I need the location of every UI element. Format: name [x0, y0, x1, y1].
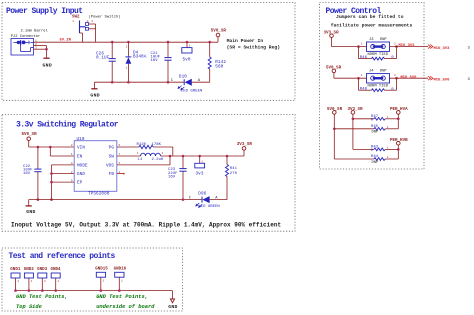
svg-text:MODE: MODE	[77, 163, 88, 168]
svg-text:Jumpers can be fitted to: Jumpers can be fitted to	[336, 14, 404, 20]
testpoint GND2	[24, 268, 35, 291]
svg-text:DNP: DNP	[372, 161, 380, 165]
svg-text:1: 1	[361, 42, 363, 45]
svg-text:3V3_SR: 3V3_SR	[348, 108, 364, 112]
junction row2 right	[395, 77, 398, 80]
capacitor C23	[168, 156, 187, 200]
diode D4	[125, 42, 146, 82]
node PER_HVB	[390, 139, 408, 159]
svg-text:1: 1	[71, 153, 73, 156]
svg-text:Test and reference points: Test and reference points	[9, 252, 116, 261]
svg-text:1: 1	[387, 116, 389, 119]
svg-text:VOS: VOS	[106, 163, 114, 168]
svg-text:EN: EN	[77, 154, 83, 159]
switch SW2 body	[80, 21, 89, 34]
svg-text:2.2uH: 2.2uH	[152, 158, 165, 162]
wire: test point ground rail	[16, 291, 173, 299]
wire: 5V rail to VIN	[29, 146, 74, 148]
svg-text:1: 1	[17, 280, 19, 283]
junction dots output rail	[169, 155, 229, 158]
svg-text:facilitate power measurements: facilitate power measurements	[331, 22, 413, 28]
resistor R45 DNP	[334, 125, 398, 135]
svg-text:SW: SW	[109, 154, 115, 159]
wire: jack pin2/3 to ground	[34, 46, 47, 58]
svg-text:EP: EP	[77, 181, 83, 186]
svg-text:2: 2	[394, 42, 396, 45]
frame: power supply input	[2, 3, 295, 101]
junction dots MGE	[37, 172, 53, 201]
svg-text:GND3: GND3	[37, 268, 48, 272]
svg-text:1: 1	[103, 280, 105, 283]
svg-text:VIN: VIN	[77, 145, 85, 150]
svg-text:5V0_SR: 5V0_SR	[22, 133, 38, 137]
pin FB stub	[117, 173, 125, 175]
svg-text:1: 1	[387, 156, 389, 159]
node 5V0_SR (matrix)	[327, 108, 343, 159]
svg-text:GND15: GND15	[95, 267, 108, 271]
wire: bottom ground rail regulator	[29, 199, 202, 201]
resistor R41	[226, 156, 238, 200]
svg-text:3: 3	[71, 162, 73, 165]
wire: row1 left	[332, 46, 367, 48]
svg-text:FB: FB	[109, 172, 115, 177]
switch SW2 pin numbers	[72, 20, 93, 23]
svg-text:DNP: DNP	[380, 38, 388, 42]
svg-text:GND: GND	[168, 304, 178, 310]
svg-text:R41: R41	[230, 167, 238, 171]
svg-text:GND: GND	[26, 209, 36, 215]
svg-text:3v3: 3v3	[196, 171, 204, 176]
wire: row2 left	[334, 77, 367, 79]
capacitor C21	[151, 42, 172, 82]
svg-text:DNP: DNP	[372, 131, 380, 135]
resistor R46 bypass row1	[359, 47, 397, 61]
svg-text:U10: U10	[77, 137, 85, 142]
svg-text:PG: PG	[109, 145, 115, 150]
svg-text:1: 1	[126, 67, 128, 70]
svg-text:270: 270	[230, 172, 238, 176]
resistor R48 bypass row2	[359, 78, 397, 92]
svg-text:R45: R45	[371, 125, 379, 129]
resistor R44 DNP	[334, 155, 398, 165]
resistor R142	[208, 42, 226, 82]
connector PJ2 pin numbers 1 2 3	[35, 39, 37, 49]
svg-text:R44: R44	[371, 155, 379, 159]
svg-text:3.3v Switching Regulator: 3.3v Switching Regulator	[16, 120, 119, 129]
svg-text:underside of board: underside of board	[96, 304, 155, 310]
svg-text:1: 1	[121, 280, 123, 283]
svg-text:R46: R46	[360, 56, 368, 60]
svg-text:2: 2	[394, 74, 396, 77]
wire: VOS to output	[117, 156, 170, 165]
svg-text:NORM TIED: NORM TIED	[368, 53, 389, 57]
svg-text:GND: GND	[90, 93, 100, 99]
svg-text:5v0: 5v0	[183, 58, 191, 63]
connector PJ2 body	[11, 39, 34, 56]
node 5V0_SR (top box)	[211, 29, 227, 42]
svg-text:1: 1	[72, 20, 74, 23]
svg-text:(SR = Swithing Reg): (SR = Swithing Reg)	[227, 45, 281, 51]
jumper J3	[361, 38, 396, 57]
node 3V3_SR (control row 1)	[324, 32, 340, 47]
svg-text:Top Side: Top Side	[16, 304, 42, 310]
svg-text:NORM TIED: NORM TIED	[368, 85, 389, 89]
svg-text:GND2: GND2	[24, 268, 35, 272]
title: 3.3v Switching Regulator	[16, 120, 119, 129]
testpoint GND16	[114, 267, 127, 290]
port MCU_5V0	[428, 76, 471, 82]
svg-text:16V: 16V	[151, 59, 159, 63]
testpoint 3v3	[195, 156, 205, 176]
svg-text:TPS62080: TPS62080	[88, 191, 110, 196]
svg-text:9: 9	[71, 179, 73, 182]
svg-text:178K: 178K	[152, 143, 162, 147]
testpoint GND15	[95, 267, 108, 290]
svg-text:L1: L1	[138, 158, 143, 162]
svg-text:Main Power In: Main Power In	[227, 38, 264, 44]
svg-text:16V: 16V	[168, 175, 176, 179]
node 5V0_SR (control row 2)	[326, 66, 342, 78]
svg-text:MCU_3V3: MCU_3V3	[399, 44, 416, 48]
wire: row1 out	[390, 46, 429, 48]
wire: row2 out	[390, 77, 429, 79]
junction dots on VIN rail	[37, 146, 52, 149]
jumper J4	[361, 70, 396, 89]
svg-text:J3: J3	[369, 38, 374, 42]
svg-text:2.1mm Barrel: 2.1mm Barrel	[21, 28, 49, 33]
svg-text:1: 1	[57, 280, 59, 283]
junction dot c23 bottom	[182, 198, 185, 201]
frame: power control	[320, 3, 425, 170]
svg-text:0.1UF: 0.1UF	[96, 56, 110, 61]
wire: switch pins to rail	[80, 24, 96, 42]
port MCU_3V3	[428, 45, 471, 51]
svg-text:MCU_5V0: MCU_5V0	[401, 76, 418, 80]
wire: EN tie to rail	[50, 147, 74, 156]
svg-text:3: 3	[87, 20, 89, 23]
title: Power Control	[326, 7, 382, 16]
testpoint GND1	[10, 268, 21, 291]
svg-text:8: 8	[71, 144, 73, 147]
LED D96	[189, 192, 227, 210]
svg-text:LED GREEN: LED GREEN	[198, 205, 220, 209]
ground: test box arrow	[168, 299, 178, 310]
junction dots on rail	[111, 41, 211, 44]
wire: MODE GND EP tie to ground	[52, 165, 75, 200]
svg-text:1: 1	[44, 280, 46, 283]
frame: 3.3v switching regulator	[2, 114, 295, 231]
svg-text:MCU_5V0: MCU_5V0	[434, 78, 451, 82]
svg-text:SW2: SW2	[72, 16, 80, 20]
node 3V3_SR (regulator box)	[237, 143, 253, 156]
svg-text:GND Test Points,: GND Test Points,	[16, 294, 68, 300]
node 5V0_SR (regulator box)	[22, 133, 38, 147]
svg-text:GND: GND	[43, 62, 53, 68]
testpoint 5v0	[182, 42, 192, 63]
svg-text:5V0_SR: 5V0_SR	[211, 29, 227, 33]
svg-text:R48: R48	[360, 87, 368, 91]
junction dot per_hvb	[397, 148, 400, 151]
svg-text:2: 2	[126, 46, 128, 49]
ground: under jack	[43, 58, 53, 68]
resistor R47	[353, 115, 398, 123]
svg-text:MCU_3V3: MCU_3V3	[434, 47, 451, 51]
svg-text:R120: R120	[137, 143, 147, 147]
junction row1	[357, 45, 360, 48]
testpoint GND3	[37, 268, 48, 291]
resistor R120 with PG wire	[117, 143, 173, 156]
inductor L1 with SW wire	[117, 152, 244, 162]
svg-text:GND4: GND4	[51, 268, 62, 272]
wire: main 5V rail	[34, 41, 219, 43]
svg-text:GND Test Points,: GND Test Points,	[96, 294, 148, 300]
svg-text:2: 2	[91, 20, 93, 23]
svg-text:GND16: GND16	[114, 267, 127, 271]
svg-text:Inoput Voltage 5V, Output 3.3V: Inoput Voltage 5V, Output 3.3V at 700mA.…	[11, 221, 281, 228]
svg-text:2: 2	[71, 171, 73, 174]
svg-text:16V: 16V	[23, 172, 31, 176]
junction row2	[357, 77, 360, 80]
svg-text:1: 1	[31, 280, 33, 283]
ground: top box left	[90, 82, 100, 98]
junction dots matrix left	[333, 118, 400, 131]
resistor R43	[353, 145, 398, 153]
svg-text:D10: D10	[179, 74, 187, 79]
svg-text:1: 1	[387, 147, 389, 150]
svg-text:J4: J4	[369, 70, 374, 74]
svg-text:1: 1	[137, 152, 139, 155]
wire: bottom gnd rail top box	[94, 81, 183, 83]
capacitor C26	[96, 42, 116, 82]
svg-text:560: 560	[215, 64, 223, 69]
capacitor C22	[23, 147, 42, 200]
LED D10	[171, 74, 210, 93]
svg-text:GND: GND	[77, 172, 85, 177]
ground: regulator box	[26, 200, 36, 215]
node PER_HVA	[390, 108, 408, 129]
frame: test and reference points	[2, 248, 183, 311]
junction row1 right	[395, 45, 398, 48]
svg-text:1: 1	[201, 160, 203, 163]
svg-text:1: 1	[361, 74, 363, 77]
node 3V3_SR (matrix)	[348, 108, 364, 149]
svg-text:1: 1	[189, 44, 191, 47]
title: Power Supply Input	[6, 7, 83, 16]
svg-text:3V3_SR: 3V3_SR	[237, 143, 253, 147]
svg-text:D96: D96	[198, 192, 206, 197]
op IC U10 TPS62080	[71, 137, 121, 197]
junction dots bottom rail	[111, 81, 169, 84]
svg-text:1: 1	[387, 126, 389, 129]
junction: jack gnd	[45, 48, 48, 51]
svg-text:DNP: DNP	[380, 70, 388, 74]
svg-text:LED GREEN: LED GREEN	[181, 90, 203, 94]
svg-text:2: 2	[162, 152, 164, 155]
title: Test and reference points	[9, 252, 116, 261]
testpoint GND4	[51, 268, 62, 291]
svg-text:GND1: GND1	[10, 268, 21, 272]
svg-text:B340A: B340A	[133, 54, 147, 59]
svg-text:(Power Switch): (Power Switch)	[89, 15, 121, 20]
junction dots on test rail	[14, 289, 120, 292]
